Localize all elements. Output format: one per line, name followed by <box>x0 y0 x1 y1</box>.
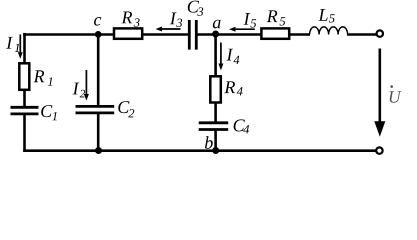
label I2 <box>73 83 86 98</box>
capacitor C4 <box>199 123 229 130</box>
terminal bottom right <box>376 147 382 153</box>
wire R5 to L5 <box>289 33 310 36</box>
label C2 <box>118 101 134 117</box>
label C4 <box>234 119 250 133</box>
current arrow I4 <box>218 43 223 71</box>
wire node a branch down to R4 <box>214 35 217 77</box>
capacitor C2 <box>76 106 115 113</box>
node c junction dot <box>95 31 102 38</box>
label R4 <box>224 81 242 95</box>
resistor R3 <box>114 28 142 38</box>
current arrow I2 <box>84 70 89 101</box>
resistor R5 <box>261 28 289 38</box>
wire C4 to node b <box>214 130 217 151</box>
current arrow I1 <box>18 35 23 59</box>
wire bottom <box>23 149 376 152</box>
label R3 <box>121 12 139 27</box>
label node b <box>205 136 213 149</box>
wire R1 to C1 <box>23 90 26 107</box>
label voltage U with dot <box>390 85 402 102</box>
label I3 <box>170 13 182 28</box>
wire C3 to R5 through node a <box>197 33 262 36</box>
wire R4 to C4 <box>214 102 217 123</box>
label R5 <box>267 10 286 25</box>
label C3 <box>188 1 203 16</box>
voltage arrow U <box>374 49 385 137</box>
terminal top right <box>377 30 383 36</box>
node a junction dot <box>212 31 219 38</box>
resistor R4 <box>210 76 221 102</box>
junction dot C2 bottom <box>95 147 102 154</box>
current arrow I3 <box>156 27 181 32</box>
label node c <box>94 17 101 26</box>
inductor L5 <box>310 27 348 35</box>
capacitor C1 <box>11 107 39 114</box>
label L5 <box>318 9 334 23</box>
wire L5 to top terminal <box>347 33 376 36</box>
node b junction dot <box>212 147 219 154</box>
wire top-left: corner to R3 <box>23 33 114 36</box>
wire left vertical down to R1 <box>23 33 26 64</box>
wire C1 to bottom <box>23 114 26 152</box>
resistor R1 <box>19 63 29 90</box>
label R1 <box>34 70 53 85</box>
wire C2 to bottom junction <box>97 113 100 151</box>
wire R3 to C3 <box>143 33 188 36</box>
label node a <box>213 20 221 29</box>
label I1 <box>6 37 19 52</box>
label I5 <box>243 13 256 28</box>
label I4 <box>226 49 239 64</box>
capacitor C3 <box>189 20 196 50</box>
wire node c branch down to C2 <box>97 35 100 106</box>
current arrow I5 <box>229 27 255 32</box>
label C1 <box>41 105 57 120</box>
